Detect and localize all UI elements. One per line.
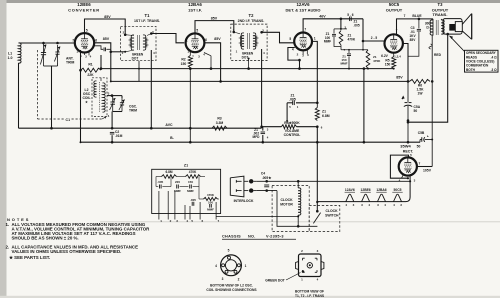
svg-text:6: 6 (95, 38, 97, 42)
svg-text:BLUE: BLUE (412, 14, 422, 18)
svg-text:1ST I.F. TRANS.: 1ST I.F. TRANS. (134, 19, 160, 23)
svg-text:5: 5 (289, 37, 291, 41)
svg-text:50: 50 (414, 109, 418, 113)
svg-text:1.0: 1.0 (8, 56, 13, 60)
svg-text:1W: 1W (418, 91, 424, 95)
svg-text:12BA6: 12BA6 (376, 188, 386, 192)
svg-text:12BA6: 12BA6 (188, 2, 202, 7)
svg-text:TRIM: TRIM (129, 109, 137, 113)
svg-text:T1, T2 - I.F. TRANS: T1, T2 - I.F. TRANS (295, 294, 325, 298)
svg-text:470K: 470K (373, 59, 381, 63)
svg-text:6.8M: 6.8M (165, 170, 172, 174)
svg-text:.005: .005 (190, 198, 196, 202)
svg-text:BOTTOM VIEW OF: BOTTOM VIEW OF (295, 289, 324, 293)
svg-text:150: 150 (188, 180, 193, 184)
svg-text:5: 5 (228, 249, 230, 253)
svg-text:50: 50 (417, 145, 421, 149)
svg-text:1,3,4: 1,3,4 (394, 55, 401, 59)
svg-text:MMF: MMF (187, 189, 194, 193)
svg-text:MMF: MMF (207, 208, 214, 212)
svg-text:SWITCH: SWITCH (325, 213, 339, 217)
svg-text:.005: .005 (354, 23, 360, 27)
svg-text:★: ★ (84, 100, 88, 104)
svg-text:3.3M: 3.3M (216, 121, 224, 125)
svg-text:DOT: DOT (132, 57, 139, 61)
svg-text:4: 4 (292, 48, 294, 52)
svg-text:CONVERTER: CONVERTER (68, 8, 100, 13)
svg-text:R1: R1 (88, 63, 92, 67)
svg-text:220: 220 (175, 180, 180, 184)
svg-text:R4★500K: R4★500K (284, 121, 300, 125)
svg-text:BOTH: BOTH (466, 68, 476, 72)
svg-text:22K: 22K (87, 73, 94, 77)
svg-text:C5B: C5B (418, 131, 425, 135)
svg-text:TRANS.: TRANS. (433, 12, 448, 17)
svg-text:5: 5 (196, 28, 198, 32)
svg-text:V-2395-3: V-2395-3 (266, 235, 284, 239)
svg-text:MOTOR: MOTOR (280, 203, 293, 207)
svg-text:35W4: 35W4 (400, 144, 411, 149)
svg-text:TRIM: TRIM (66, 61, 74, 65)
svg-text:12AV6: 12AV6 (345, 188, 355, 192)
svg-text:470K: 470K (348, 38, 356, 42)
svg-text:150: 150 (385, 63, 391, 67)
svg-text:2: 2 (188, 50, 190, 54)
svg-text:105V: 105V (423, 169, 432, 173)
svg-text:CHASSIS: CHASSIS (222, 235, 241, 239)
svg-text:150: 150 (181, 62, 187, 66)
svg-text:C1: C1 (66, 118, 71, 122)
svg-text:85V: 85V (396, 75, 403, 79)
svg-text:5 , 6: 5 , 6 (347, 13, 353, 17)
svg-text:BOTTOM VIEW OF L2 OSC.: BOTTOM VIEW OF L2 OSC. (210, 284, 253, 288)
svg-text:.005: .005 (157, 180, 163, 184)
svg-text:★ SEE PARTS LIST.: ★ SEE PARTS LIST. (8, 255, 50, 260)
svg-text:Ω: Ω (426, 25, 429, 29)
svg-text:85V: 85V (104, 15, 111, 19)
svg-text:12BE6: 12BE6 (77, 2, 91, 7)
svg-text:NO.: NO. (248, 235, 256, 239)
svg-text:1: 1 (245, 264, 247, 268)
svg-text:2.: 2. (6, 244, 10, 249)
svg-text:SHOULD BE AS SHOWN ± 20 %.: SHOULD BE AS SHOWN ± 20 %. (12, 236, 79, 241)
svg-text:MMF: MMF (324, 39, 331, 43)
svg-text:+: + (427, 135, 429, 139)
svg-text:VALUES IN OHMS UNLESS OTHERWIS: VALUES IN OHMS UNLESS OTHERWISE SPECIFIE… (12, 249, 122, 254)
svg-text:1: 1 (314, 36, 316, 40)
svg-text:CLOCK: CLOCK (325, 209, 338, 213)
svg-text:GREEN DOT: GREEN DOT (265, 278, 285, 282)
svg-text:470K: 470K (189, 170, 197, 174)
svg-text:12AV6: 12AV6 (296, 2, 310, 7)
svg-text:DET. & 1ST AUDIO: DET. & 1ST AUDIO (286, 8, 321, 13)
svg-text:MFD: MFD (253, 135, 261, 139)
svg-text:Z1: Z1 (184, 164, 188, 168)
svg-text:COIL SHOWING CONNECTIONS: COIL SHOWING CONNECTIONS (206, 288, 257, 292)
svg-text:6: 6 (205, 38, 207, 42)
svg-text:.005: .005 (289, 98, 296, 102)
svg-text:R3: R3 (217, 117, 221, 121)
svg-text:85V: 85V (410, 38, 417, 42)
svg-text:N O T E S: N O T E S (7, 217, 29, 222)
svg-text:.005★: .005★ (262, 176, 271, 180)
svg-text:50C5: 50C5 (389, 2, 400, 7)
svg-text:12BE6: 12BE6 (361, 188, 371, 192)
svg-text:85V: 85V (103, 37, 110, 41)
svg-text:T2: T2 (249, 13, 255, 18)
svg-text:7: 7 (304, 27, 306, 31)
svg-text:.3 Ω: .3 Ω (491, 68, 497, 72)
svg-text:DOT: DOT (242, 56, 249, 60)
svg-text:2: 2 (77, 50, 79, 54)
svg-text:7: 7 (404, 14, 406, 18)
svg-text:2 - 5: 2 - 5 (371, 36, 378, 40)
svg-text:1ST I.F.: 1ST I.F. (188, 8, 202, 13)
svg-text:OUTPUT: OUTPUT (386, 8, 403, 13)
svg-text:INTERLOCK: INTERLOCK (234, 199, 254, 203)
svg-text:CLOCK: CLOCK (280, 198, 293, 202)
svg-text:AVC: AVC (165, 123, 173, 127)
svg-text:MMF: MMF (340, 62, 347, 66)
svg-text:.01M: .01M (115, 134, 123, 138)
svg-text:RED: RED (434, 53, 442, 57)
svg-text:100: 100 (208, 200, 213, 204)
svg-text:1: 1 (186, 38, 188, 42)
svg-text:7: 7 (72, 38, 74, 42)
svg-text:2ND I.F. TRANS.: 2ND I.F. TRANS. (238, 19, 265, 23)
svg-text:1.: 1. (6, 222, 10, 227)
svg-text:5: 5 (86, 28, 88, 32)
svg-text:85V: 85V (214, 37, 221, 41)
svg-text:4: 4 (215, 264, 217, 268)
svg-text:6.8M: 6.8M (322, 114, 330, 118)
svg-text:Z1: Z1 (322, 110, 326, 114)
svg-text:85V: 85V (211, 16, 218, 20)
svg-text:50C5: 50C5 (394, 188, 402, 192)
svg-text:T1: T1 (145, 13, 151, 18)
svg-text:46V: 46V (319, 15, 326, 19)
svg-text:6.2V: 6.2V (381, 54, 389, 58)
svg-text:3: 3 (222, 277, 224, 281)
svg-text:2: 2 (238, 277, 240, 281)
svg-text:470K: 470K (207, 193, 215, 197)
svg-text:CONTROL: CONTROL (284, 133, 301, 137)
